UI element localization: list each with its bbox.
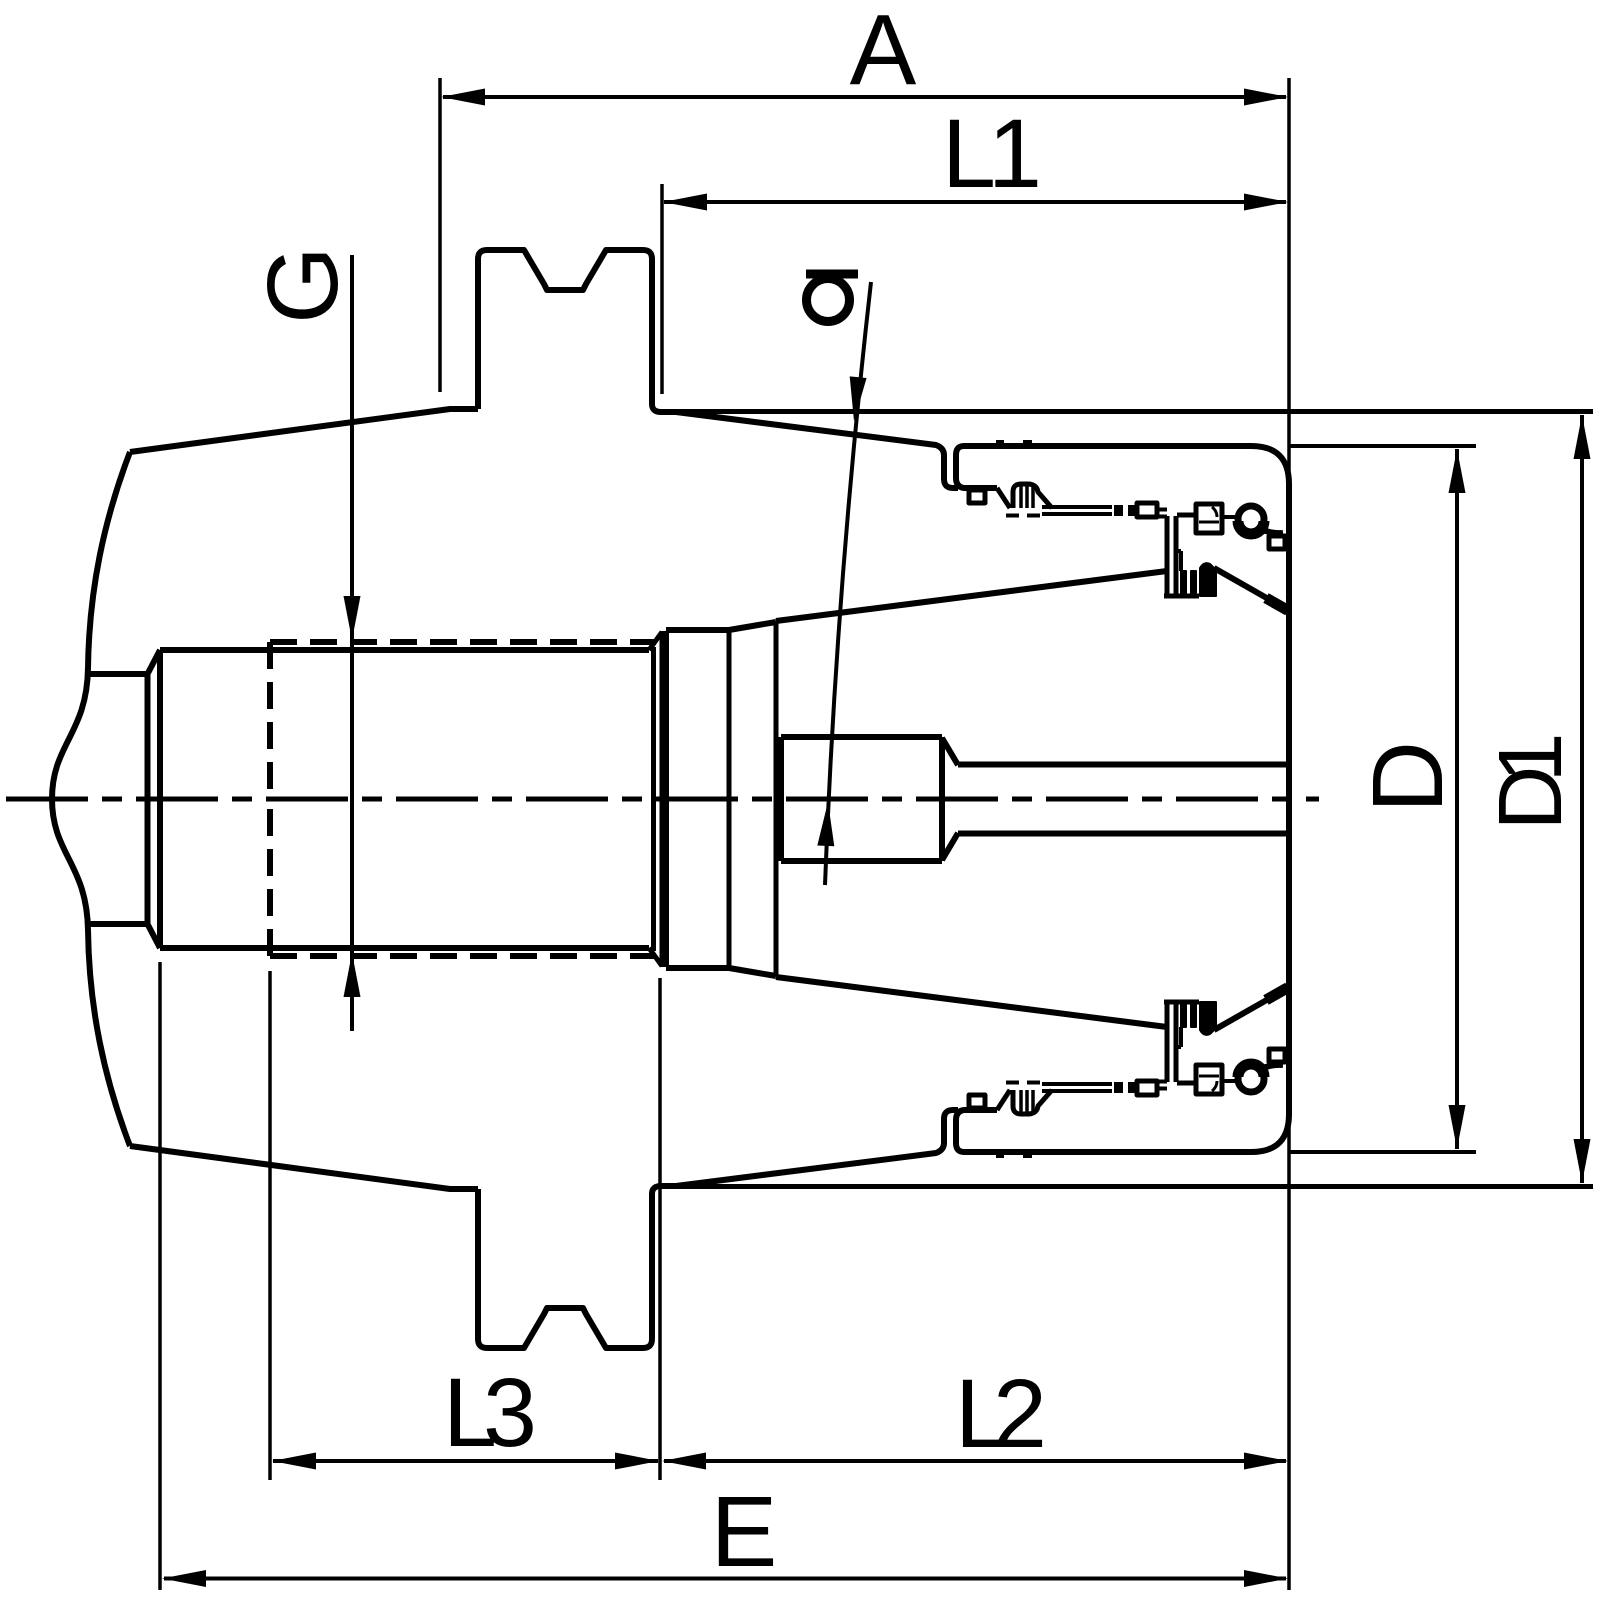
dimension E extension left <box>158 962 162 1590</box>
arrow L3 right <box>615 1453 659 1470</box>
wire shank top outline <box>130 409 478 452</box>
arrow L1 right <box>1244 194 1288 211</box>
wire sleeve top nub right <box>1023 440 1032 448</box>
wire collet outer taper <box>776 571 1167 621</box>
wire alpha leader arc <box>825 282 871 885</box>
wire link to ball <box>1222 515 1238 519</box>
arrow L1 left <box>663 194 707 211</box>
arrow alpha down <box>850 376 867 421</box>
wire screw inner fillet <box>1212 507 1217 517</box>
component clamp screw square <box>1196 504 1222 533</box>
wire left break line <box>52 452 130 1146</box>
component retainer tab <box>1269 536 1285 549</box>
mirrored lower half of chuck body <box>88 799 1593 1348</box>
wire bar broken dashes <box>1114 505 1136 516</box>
svg-text:G: G <box>247 246 359 324</box>
dimension L2 line <box>664 1459 1286 1463</box>
svg-text:L1: L1 <box>942 99 1038 208</box>
arrow G up <box>344 953 361 997</box>
svg-text:E: E <box>711 1476 778 1588</box>
dimension L3 line <box>273 1459 658 1463</box>
wire finger step <box>1176 551 1181 571</box>
wire clamp sleeve outline <box>956 446 1289 799</box>
dimension L3 extension left <box>268 971 272 1480</box>
wire thread chamfer <box>649 632 662 650</box>
wire collet ring top <box>666 622 776 630</box>
arrow E left <box>162 1570 206 1587</box>
component key square on bar <box>1137 503 1157 517</box>
dimension L1 extension left <box>660 184 664 394</box>
wire link to screw <box>1177 513 1196 518</box>
wire thread major dashed line <box>270 639 656 645</box>
wire inner cone root fill <box>1266 598 1288 611</box>
arrow L3 left <box>272 1453 316 1470</box>
wire collet rear faces <box>654 622 777 799</box>
wire collar ribs <box>1021 485 1033 508</box>
wire hidden line under bar <box>1006 514 1048 518</box>
wire clamp finger <box>1164 516 1199 596</box>
arrow L2 right <box>1244 1453 1288 1470</box>
wire thread dashed end <box>267 642 273 799</box>
svg-text:L3: L3 <box>443 1358 533 1467</box>
dimension A extension left <box>438 78 442 392</box>
arrow D1 up <box>1574 415 1591 459</box>
wire cone top and clamp pocket wall <box>676 412 958 488</box>
wire bore end cap <box>88 650 160 799</box>
dimension L3 extension right <box>658 978 662 1480</box>
wire collet inner cone <box>1214 568 1286 609</box>
wire flange V-groove outline <box>478 250 676 412</box>
symmetric upper half of chuck body <box>88 250 1593 799</box>
wire sleeve serrated collar <box>997 484 1052 508</box>
wire D dimension shaft <box>1455 449 1459 799</box>
svg-text:A: A <box>850 0 917 106</box>
dimension E line <box>164 1577 1286 1581</box>
arrow D up <box>1449 449 1466 493</box>
wire thin actuator bar <box>1042 507 1112 514</box>
label alpha rotated bowl <box>807 279 850 322</box>
component small tab under sleeve <box>969 490 985 503</box>
svg-text:D1: D1 <box>1481 737 1581 831</box>
wire bar continuation <box>1157 510 1167 517</box>
arrow E right <box>1244 1570 1288 1587</box>
dimension L1 line <box>664 200 1286 204</box>
wire D1 reference line <box>658 409 1593 414</box>
component ball bearing <box>1238 506 1264 532</box>
svg-text:L2: L2 <box>955 1359 1043 1468</box>
svg-text:D: D <box>1352 741 1464 813</box>
arrow L2 left <box>662 1453 706 1470</box>
dimension A line <box>443 95 1286 99</box>
wire center rod <box>958 762 1286 768</box>
wire D1 dimension shaft <box>1580 415 1584 799</box>
wire sleeve top nub left <box>996 440 1004 448</box>
wire collet wedge <box>1200 563 1216 596</box>
wire D reference line <box>1290 444 1476 448</box>
wire ball lower rim thickening <box>1238 521 1264 534</box>
component center screw cylinder <box>781 737 958 799</box>
arrow alpha up <box>817 802 834 846</box>
dimension A right extension and face line <box>1287 78 1291 1590</box>
centerline axis <box>6 797 1319 802</box>
arrow G down <box>344 596 361 640</box>
wire screw inner line <box>1199 521 1219 524</box>
arrow A left <box>441 89 485 106</box>
arrow A right <box>1244 89 1288 106</box>
wire ball retainer tail <box>1260 529 1283 533</box>
label alpha rotated stem <box>806 270 858 279</box>
wire finger ribs filled <box>1181 571 1196 596</box>
wire G leader <box>350 255 354 1031</box>
wire thread minor line <box>160 647 649 653</box>
